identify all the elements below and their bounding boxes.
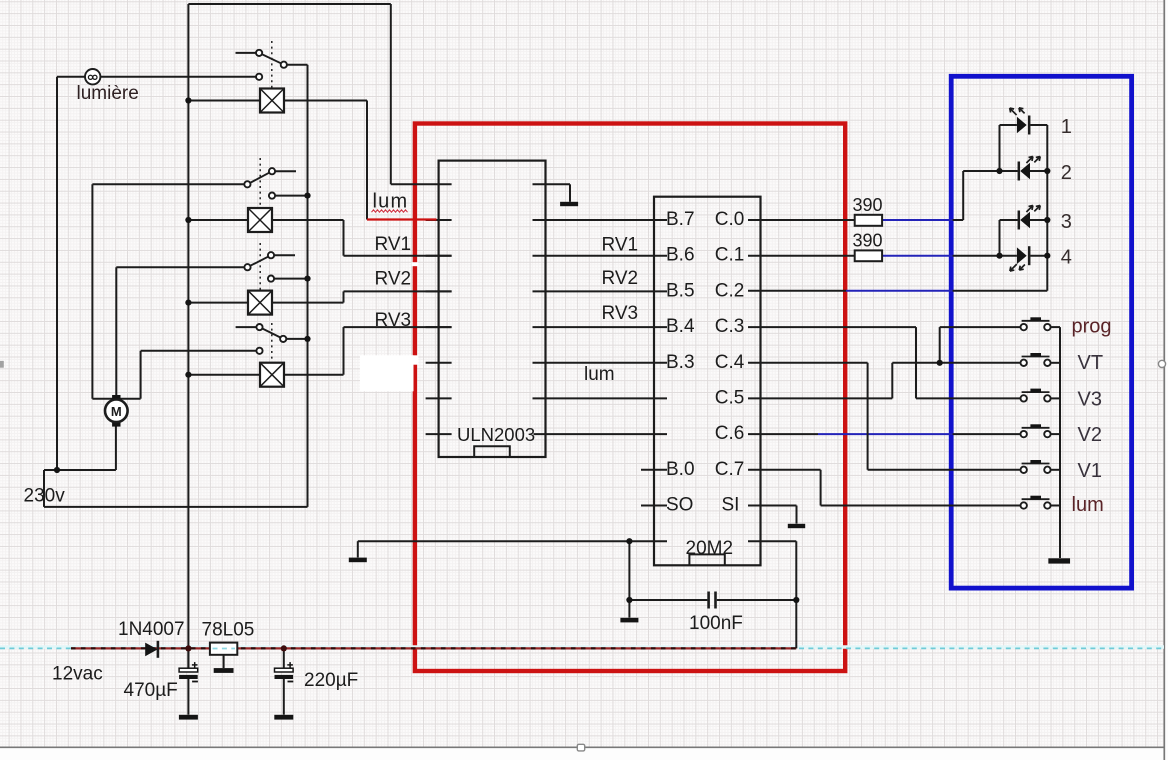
svg-text:20M2: 20M2 [686, 538, 734, 559]
svg-text:1N4007: 1N4007 [118, 619, 185, 640]
svg-text:SI: SI [722, 495, 740, 516]
svg-text:100nF: 100nF [689, 613, 743, 634]
svg-text:lum: lum [584, 364, 615, 385]
svg-text:B.3: B.3 [666, 352, 695, 373]
svg-text:V3: V3 [1078, 388, 1102, 410]
svg-text:C.6: C.6 [715, 423, 745, 444]
svg-text:V1: V1 [1078, 460, 1102, 482]
svg-text:B.7: B.7 [666, 209, 695, 230]
svg-text:B.5: B.5 [666, 280, 695, 301]
svg-text:C.5: C.5 [715, 387, 745, 408]
svg-text:prog: prog [1072, 315, 1112, 337]
svg-text:SO: SO [666, 495, 693, 516]
svg-text:78L05: 78L05 [202, 620, 255, 641]
svg-text:3: 3 [1061, 211, 1072, 233]
svg-text:C.2: C.2 [715, 280, 745, 301]
svg-text:470µF: 470µF [124, 680, 178, 701]
svg-text:B.6: B.6 [666, 245, 695, 266]
svg-text:M: M [111, 404, 122, 419]
svg-text:4: 4 [1061, 247, 1072, 269]
svg-text:lumière: lumière [77, 83, 139, 104]
svg-text:RV2: RV2 [602, 268, 639, 289]
svg-text:2: 2 [1061, 162, 1072, 184]
svg-text:230v: 230v [24, 486, 66, 507]
svg-text:220µF: 220µF [304, 670, 358, 691]
svg-text:C.7: C.7 [715, 459, 745, 480]
svg-text:RV3: RV3 [602, 303, 639, 324]
svg-text:RV1: RV1 [375, 234, 412, 255]
svg-text:B.4: B.4 [666, 316, 695, 337]
svg-text:B.0: B.0 [666, 459, 695, 480]
svg-text:RV3: RV3 [375, 310, 412, 331]
svg-text:390: 390 [853, 195, 883, 215]
svg-text:C.4: C.4 [715, 352, 745, 373]
svg-text:lum: lum [1072, 494, 1104, 516]
svg-text:V2: V2 [1078, 424, 1102, 446]
svg-text:lum: lum [373, 190, 409, 212]
svg-text:390: 390 [853, 231, 883, 251]
svg-text:C.3: C.3 [715, 316, 745, 337]
svg-text:RV2: RV2 [375, 269, 412, 290]
svg-text:RV1: RV1 [602, 235, 639, 256]
svg-text:12vac: 12vac [52, 663, 103, 684]
svg-text:VT: VT [1078, 352, 1104, 374]
svg-text:C.1: C.1 [715, 245, 745, 266]
svg-text:ULN2003: ULN2003 [457, 424, 535, 445]
svg-text:1: 1 [1061, 116, 1072, 138]
svg-text:C.0: C.0 [715, 209, 745, 230]
